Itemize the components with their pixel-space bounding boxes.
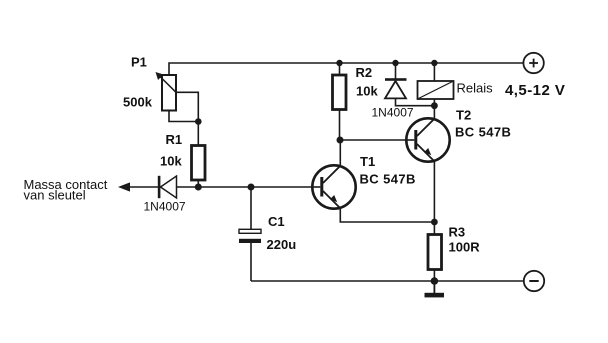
diode D2 flyback bbox=[385, 63, 434, 106]
svg-text:R2: R2 bbox=[356, 65, 373, 80]
svg-text:C1: C1 bbox=[268, 214, 285, 229]
wire R1 bottom bbox=[197, 180, 199, 187]
wire R2 top lead bbox=[339, 63, 341, 75]
node emitter junction bbox=[431, 219, 438, 226]
wire T2 collector bbox=[433, 106, 435, 119]
resistor R1 bbox=[192, 146, 206, 181]
wire C1 top lead bbox=[250, 187, 252, 230]
svg-text:10k: 10k bbox=[356, 83, 378, 98]
diode D1 left bbox=[158, 176, 177, 198]
wire top rail bbox=[169, 63, 523, 75]
resistor R2 bbox=[333, 75, 347, 110]
ground bbox=[425, 281, 445, 297]
svg-text:1N4007: 1N4007 bbox=[144, 200, 186, 214]
node R3 bottom junction bbox=[431, 277, 439, 285]
wire pot bottom bbox=[169, 111, 198, 122]
svg-text:P1: P1 bbox=[131, 54, 147, 69]
node C1 junction bbox=[248, 184, 255, 191]
transistor T1 bbox=[312, 165, 355, 208]
wire T2 emitter bbox=[433, 161, 435, 222]
node R2 top bbox=[336, 60, 342, 66]
svg-text:T1: T1 bbox=[360, 154, 375, 169]
arrow to massa contact bbox=[118, 182, 130, 191]
terminal minus bbox=[524, 271, 544, 291]
svg-text:R1: R1 bbox=[166, 132, 183, 147]
capacitor C1 bbox=[239, 229, 261, 243]
relay K1 bbox=[418, 63, 454, 106]
svg-text:10k: 10k bbox=[160, 153, 182, 168]
svg-text:4,5-12 V: 4,5-12 V bbox=[505, 82, 565, 99]
node pot junction bbox=[195, 118, 202, 125]
wire bottom rail bbox=[251, 280, 524, 282]
wire R2 bottom lead bbox=[339, 110, 341, 141]
svg-text:T2: T2 bbox=[456, 107, 471, 122]
wire arrow lead bbox=[128, 186, 158, 188]
potentiometer P1 bbox=[156, 72, 177, 111]
wire junction to R1 bbox=[197, 122, 199, 146]
wire R3 top lead bbox=[433, 222, 435, 235]
node relay top bbox=[431, 60, 437, 66]
wire T1 emitter bbox=[340, 208, 434, 222]
svg-text:BC 547B: BC 547B bbox=[455, 124, 511, 139]
svg-text:R3: R3 bbox=[449, 224, 466, 239]
node relay bottom junction bbox=[431, 102, 438, 109]
terminal plus bbox=[523, 53, 543, 73]
wire T1 collector to T2 base bbox=[340, 139, 416, 141]
svg-text:220u: 220u bbox=[267, 237, 297, 252]
transistor T2 bbox=[406, 118, 449, 161]
svg-text:van sleutel: van sleutel bbox=[24, 188, 86, 203]
wire pot wiper bbox=[176, 92, 198, 121]
wire R3 bottom lead bbox=[433, 270, 435, 282]
svg-text:1N4007: 1N4007 bbox=[372, 105, 414, 119]
svg-text:500k: 500k bbox=[123, 94, 153, 109]
svg-text:BC 547B: BC 547B bbox=[360, 171, 416, 186]
resistor R3 bbox=[428, 235, 442, 270]
wire main horizontal bbox=[158, 186, 322, 188]
svg-text:Relais: Relais bbox=[457, 81, 494, 96]
wire C1 bottom lead bbox=[250, 243, 252, 281]
wire T1 collector bbox=[339, 140, 341, 166]
node R1 bottom junction bbox=[195, 184, 202, 191]
node T1 collector junction bbox=[337, 137, 344, 144]
svg-text:100R: 100R bbox=[449, 239, 481, 254]
node diode top bbox=[392, 60, 398, 66]
